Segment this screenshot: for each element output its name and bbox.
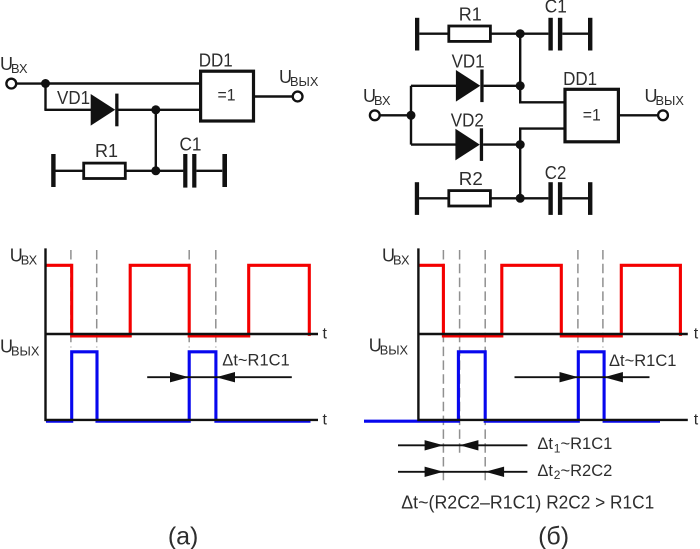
svg-text:ВЫХ: ВЫХ [380,342,409,357]
wire C1 to ground [196,170,222,172]
wire VD1 cathode to node F [484,85,521,87]
dashed marker line 5 (b) [602,250,604,347]
svg-text:(а): (а) [168,523,199,549]
svg-text:C1: C1 [545,0,567,17]
ground bar top-left (b) [415,18,419,51]
input terminal (b) [370,110,380,120]
waveform Uвых blue (a) [46,352,311,421]
waveform Uвых blue (b) [364,352,660,421]
svg-text:Δt~R1C1: Δt~R1C1 [609,352,676,370]
input terminal (a) [6,79,16,89]
ground bar right (a) [222,154,227,187]
dashed marker line 3 (b) [484,250,486,483]
wire to diode VD2 anode [411,143,457,145]
svg-text:Δt: Δt [537,435,553,453]
wire to diode VD1 anode [411,85,457,87]
wire C2 to ground [562,197,588,199]
node E junction dot [407,111,416,120]
wire node B down to RC node [155,110,157,171]
wire C1 to ground [562,33,588,35]
svg-text:Δt~R1C1: Δt~R1C1 [222,351,289,369]
op element DD1 box (a) [201,71,254,121]
output terminal (a) [293,92,303,102]
op element DD1 box (b) [565,89,618,142]
svg-text:VD1: VD1 [452,51,485,71]
wire ground to R2 [419,197,449,199]
svg-text:R1: R1 [95,141,118,161]
svg-text:DD1: DD1 [563,69,597,89]
waveform Uвх red (b) [419,265,681,336]
dashed marker line 4 (a) [215,250,217,347]
dashed marker line 2 (a) [96,250,98,347]
capacitor C2 [548,182,562,215]
axis t2 (a) [46,419,319,421]
svg-text:=1: =1 [218,87,236,105]
arrow measure line dt1 [398,444,527,446]
wire DD1 output [253,95,293,97]
svg-text:t: t [323,412,328,429]
dashed marker line 1 (b) [442,250,444,483]
arrowhead left-pointing dt2 [485,467,504,477]
wire VD1 cathode to DD1 input 2 [119,109,202,111]
svg-text:t: t [694,325,699,342]
diode VD1 (b) [456,70,484,103]
axis vertical (b) [417,248,419,421]
arrowhead left-pointing dt (b) [604,372,623,382]
svg-text:ВХ: ВХ [21,252,38,267]
svg-text:R1: R1 [459,4,482,24]
svg-text:(б): (б) [538,523,569,549]
node H junction dot [516,194,525,203]
svg-text:~R1C1: ~R1C1 [561,435,613,453]
node C junction dot [151,166,160,175]
axis t2 (b) [418,419,687,421]
node D junction dot [516,29,525,38]
arrowhead left-pointing dt1 [460,440,479,450]
dashed marker line 4 (b) [577,250,579,347]
node B junction dot [151,105,160,114]
arrowhead right-pointing dt (a) [170,372,189,382]
svg-text:VD2: VD2 [451,111,484,131]
waveform Uвх red (a) [46,265,309,336]
output terminal (b) [658,110,668,120]
arrow measure line dt2 [398,471,527,473]
diode VD1 [91,94,119,127]
svg-text:ВЫХ: ВЫХ [290,74,319,89]
wire node G to DD1 input 2 [520,129,565,145]
dashed marker line 2 (b) [459,250,461,456]
svg-text:ВХ: ВХ [374,93,391,108]
svg-text:t: t [323,325,328,342]
wire R1 to node C [125,170,184,172]
axis vertical (a) [44,248,46,421]
ground bar bottom-right (b) [588,182,592,215]
svg-text:C2: C2 [545,163,567,183]
arrowhead left-pointing dt (a) [216,372,235,382]
axis t1 (a) [46,333,319,335]
ground bar top-right (b) [588,18,592,51]
ground bar left (a) [51,154,55,187]
svg-text:C1: C1 [180,135,202,155]
svg-text:R2C2 > R1C1: R2C2 > R1C1 [546,492,654,513]
wire node D down to VD1 node [519,34,521,86]
wire to diode VD1 anode [44,109,92,111]
wire R2 to node H [490,197,549,199]
wire node A down [44,84,46,110]
wire node A to DD1 input 1 [46,82,202,84]
svg-text:=1: =1 [583,107,601,125]
wire VD2 cathode to node G [483,143,520,145]
svg-text:R2: R2 [459,169,483,189]
capacitor C1 (a) [183,154,196,188]
svg-text:VD1: VD1 [57,88,90,108]
wire ground to R1 [55,170,85,172]
resistor R2 [449,191,491,206]
svg-text:ВЫХ: ВЫХ [11,343,40,358]
ground bar bottom-left (b) [415,182,419,215]
node A junction dot [41,79,50,88]
arrow measure line dt (a) [147,376,292,378]
svg-text:ВХ: ВХ [393,252,410,267]
svg-text:ВЫХ: ВЫХ [656,93,685,108]
arrowhead right-pointing dt2 [425,467,444,477]
wire terminal to node A [17,82,46,84]
axis t1 (b) [418,333,687,335]
wire node E vertical [410,86,412,145]
resistor R1 (b) [449,26,491,41]
resistor R1 (a) [84,163,126,178]
dashed marker line 3 (a) [188,250,190,347]
wire node F to DD1 input 1 [520,86,565,103]
capacitor C1 (b) [548,18,562,51]
svg-text:Δt: Δt [537,462,553,480]
svg-text:t: t [694,412,699,429]
svg-text:ВХ: ВХ [11,61,28,76]
wire DD1 output (b) [618,114,659,116]
wire R1 to node D [490,33,549,35]
diode VD2 [455,128,483,161]
svg-text:~R2C2: ~R2C2 [561,462,613,480]
svg-text:DD1: DD1 [199,51,233,71]
node F junction dot [516,81,525,90]
arrowhead right-pointing dt (b) [560,372,579,382]
dashed marker line 1 (a) [70,250,72,347]
arrowhead right-pointing dt1 [425,440,444,450]
wire node G down to R2C2 node [519,145,521,199]
node G junction dot [516,140,525,149]
arrow measure line dt (b) [515,376,650,378]
wire ground to R1 [419,33,449,35]
svg-text:Δt~(R2C2–R1C1): Δt~(R2C2–R1C1) [401,492,541,513]
wire terminal to node E [379,114,411,116]
